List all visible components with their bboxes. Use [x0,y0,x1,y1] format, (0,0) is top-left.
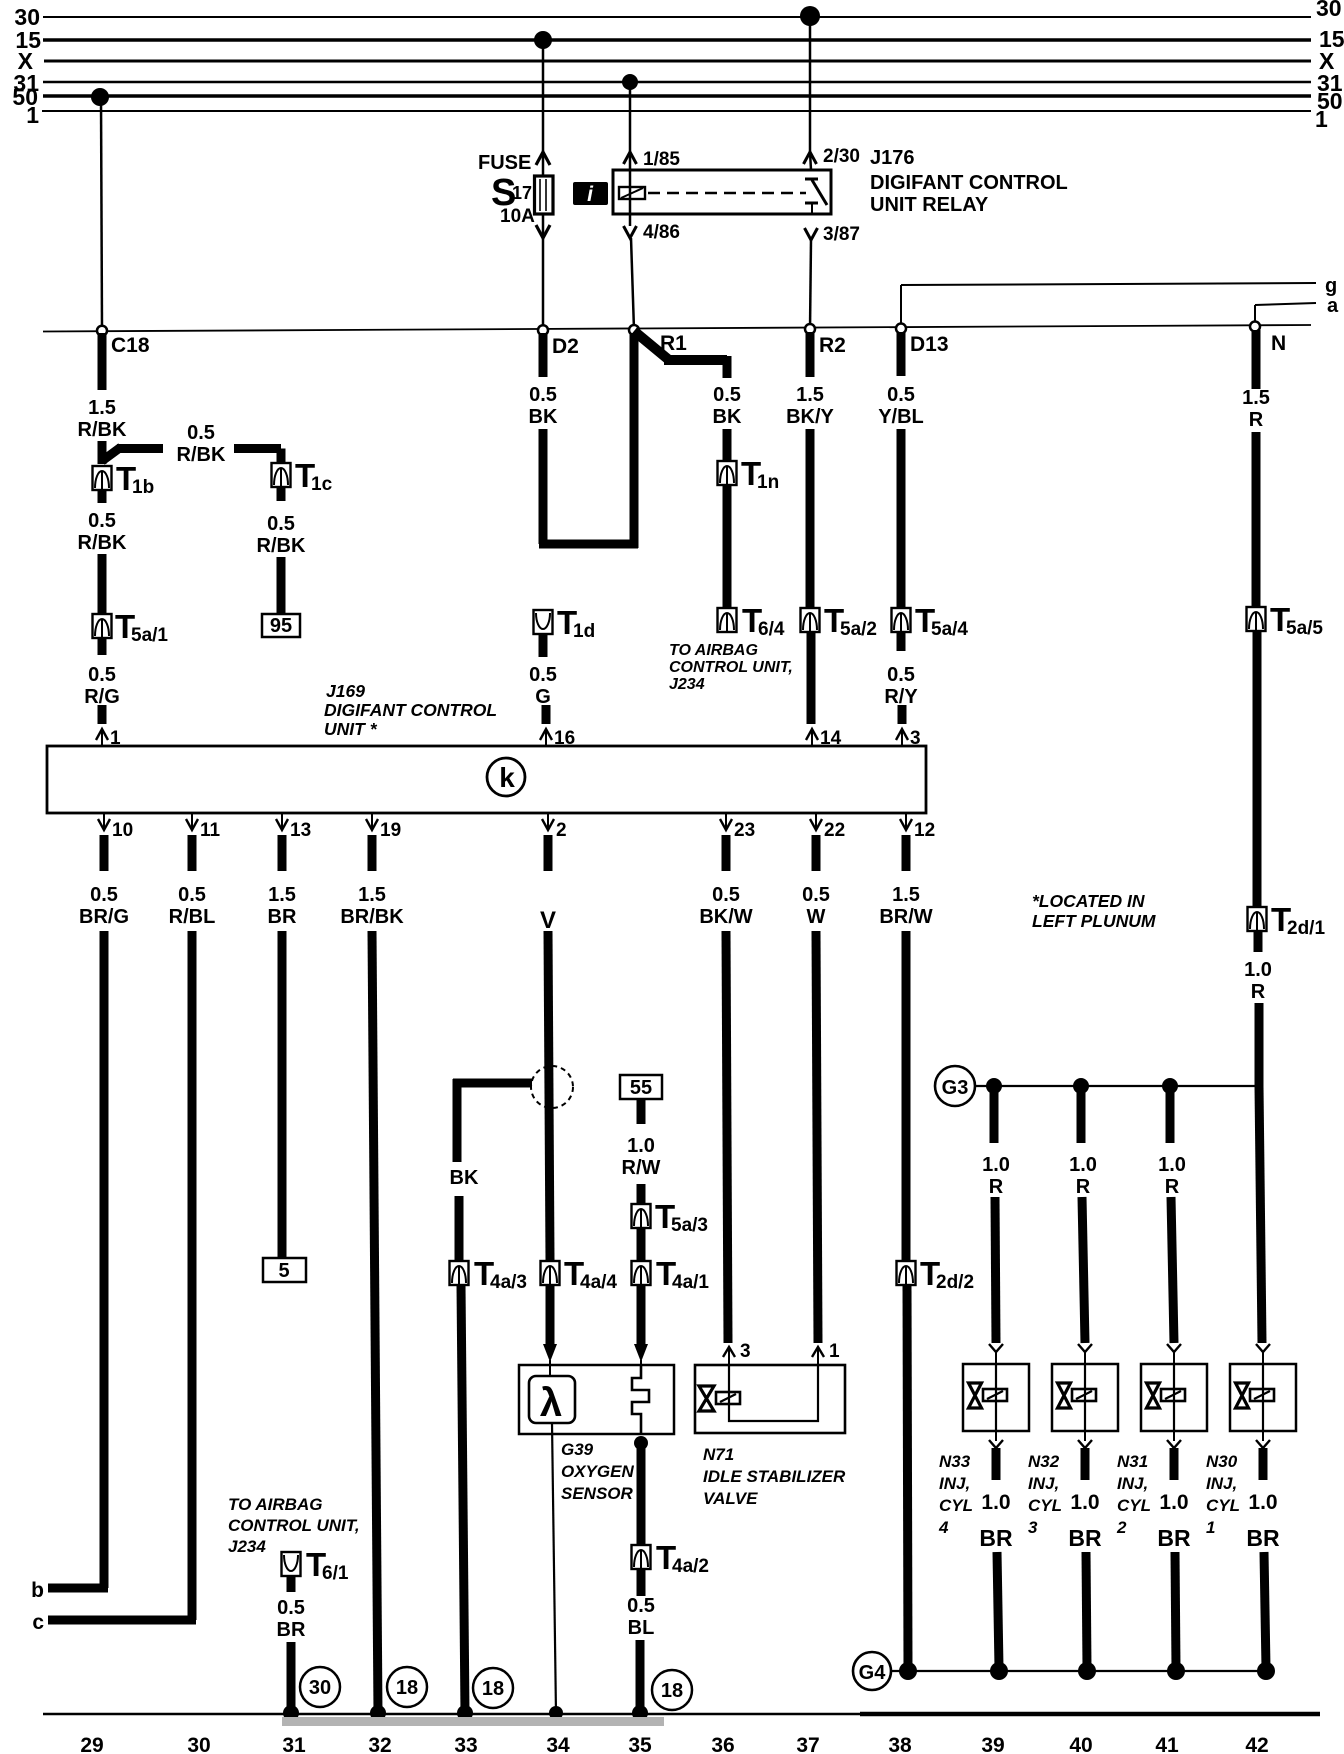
svg-text:BR: BR [979,1525,1013,1551]
svg-text:INJ,: INJ, [1117,1474,1148,1493]
svg-text:2: 2 [1116,1518,1127,1537]
connector T5a/1 [93,608,169,646]
wire to pin 3 [898,705,907,724]
wire C18 down [98,333,107,390]
pin 11 of J169 [186,813,221,841]
wire below T4a/2 [637,1569,646,1596]
wire below T5a/1 [98,638,107,655]
injector N32 internal wire [1084,1364,1086,1431]
svg-text:J234: J234 [669,676,705,693]
svg-text:34: 34 [546,1734,570,1754]
svg-text:4a/1: 4a/1 [672,1272,709,1293]
label 1.0 BR N30 [1246,1491,1280,1551]
label N71 idle stabilizer valve [703,1445,846,1508]
G4 junction dot N31 [1167,1662,1185,1680]
svg-text:g: g [1325,275,1337,297]
svg-text:10: 10 [112,820,133,841]
idle stabilizer valve N71 box [695,1365,845,1433]
svg-text:2d/2: 2d/2 [936,1272,974,1293]
arrow into G39 left [543,1344,557,1377]
arrow into N33 [989,1344,1003,1364]
wire stub pin 2 [544,835,553,871]
svg-text:c: c [32,1611,44,1634]
svg-text:BK: BK [450,1167,479,1189]
relay switch [805,179,827,214]
svg-text:1.0: 1.0 [1069,1154,1097,1176]
junction on bus 50 [91,88,109,106]
injector feed wire N32 [1077,1086,1086,1143]
pin below N33 [989,1431,1003,1448]
svg-text:BK: BK [713,406,742,428]
junction on bus 31 [622,74,638,90]
N71 internal wire [729,1365,818,1421]
lambda probe symbol [529,1376,575,1425]
wire to T1n [723,429,732,461]
bus line 31 [43,81,1311,84]
marker box 1 [573,182,608,206]
ground dot 35 [632,1705,648,1721]
svg-text:1.0: 1.0 [1158,1154,1186,1176]
wire T4a/1 to G39 [637,1285,646,1344]
label G39 oxygen sensor [561,1440,634,1503]
label N30 INJ CYL 1 [1206,1452,1240,1537]
svg-text:BR/W: BR/W [879,906,932,928]
svg-text:k: k [499,762,515,793]
svg-text:SENSOR: SENSOR [561,1484,634,1503]
svg-text:R/BL: R/BL [169,906,216,928]
svg-text:R/BK: R/BK [78,532,127,554]
N71 valve symbol [699,1386,740,1411]
wire below T5a/4 [897,632,906,651]
terminal 95 box [262,614,300,637]
label 1.0 BR N33 [979,1491,1013,1551]
wire to N33 [995,1197,996,1343]
junction below G39 [634,1436,648,1450]
wire to ground 35 [636,1640,645,1714]
svg-text:BK: BK [529,406,558,428]
wire pin22 to N71 [816,931,818,1343]
ground rail shading [282,1717,664,1726]
svg-text:3: 3 [740,1341,751,1362]
wire to T1b [98,441,107,464]
svg-text:CONTROL UNIT,: CONTROL UNIT, [669,659,793,676]
wire D2 down [539,333,548,377]
svg-text:R/BK: R/BK [257,535,306,557]
svg-text:17: 17 [512,183,532,203]
svg-text:J176: J176 [870,147,915,169]
svg-text:12: 12 [914,820,935,841]
svg-text:1.0: 1.0 [1244,959,1272,981]
svg-text:CYL: CYL [1117,1496,1151,1515]
pin below N31 [1167,1431,1181,1448]
svg-text:0.5: 0.5 [267,513,295,535]
wire T5a/3 to T4a/1 [637,1228,646,1261]
track numbers [80,1734,1268,1754]
arrow into G39 right [634,1344,648,1368]
pin 10 of J169 [98,813,133,841]
wire pin13 down [278,931,287,1258]
note to airbag lower [228,1495,360,1556]
svg-text:R: R [1076,1176,1091,1198]
relay J176 box [613,170,831,214]
injector N31 valve symbol [1147,1383,1186,1408]
svg-text:0.5: 0.5 [529,664,557,686]
svg-text:10A: 10A [500,206,535,227]
wire stub pin 10 [100,835,109,871]
svg-text:TO AIRBAG: TO AIRBAG [228,1495,322,1514]
svg-text:0.5: 0.5 [627,1595,655,1617]
svg-text:G39: G39 [561,1440,594,1459]
wire G39 to T4a/2 [637,1443,646,1545]
svg-text:2d/1: 2d/1 [1287,918,1325,939]
pin 3 of N71 [723,1341,751,1365]
connector T2d/1 [1248,901,1326,939]
svg-text:TO AIRBAG: TO AIRBAG [669,642,758,659]
wire T4a/4 to G39 [546,1285,555,1344]
svg-text:BR/BK: BR/BK [340,906,404,928]
G4 junction dot N33 [990,1662,1008,1680]
svg-text:DIGIFANT CONTROL: DIGIFANT CONTROL [870,172,1068,194]
svg-text:N30: N30 [1206,1452,1238,1471]
wire pin12 to T2d/2 [902,931,911,1261]
svg-text:30: 30 [309,1677,331,1699]
connector T4a/4 [541,1255,618,1293]
ground dot 34 [549,1706,563,1720]
svg-text:0.5: 0.5 [187,422,215,444]
svg-text:0.5: 0.5 [713,384,741,406]
svg-text:BR: BR [1157,1525,1191,1551]
pin 3 of J169 [896,728,921,749]
arrow pin 1/85 [624,152,637,164]
svg-text:G: G [535,686,551,708]
label N32 INJ CYL 3 [1028,1452,1062,1537]
wire BK to T4a/3 [455,1196,464,1261]
wire bus30 to pin 2/30 [809,18,812,152]
pin below N32 [1078,1431,1092,1448]
arrow into N32 [1078,1344,1092,1364]
wire D2 U-turn [539,333,638,548]
svg-text:35: 35 [628,1734,652,1754]
wire T2d/2 to G4 [907,1285,908,1668]
wire g [901,283,1316,329]
svg-text:1b: 1b [132,477,154,498]
wire to T5a/2 [806,429,815,608]
svg-text:R: R [1251,981,1266,1003]
pin 13 of J169 [276,813,311,841]
svg-text:5a/2: 5a/2 [840,619,877,640]
svg-text:CYL: CYL [1206,1496,1240,1515]
wire below T1c [277,487,286,501]
bus line X [44,60,1311,63]
label N33 INJ CYL 4 [938,1452,973,1537]
svg-text:BR/G: BR/G [79,906,129,928]
wire stub below N32 [1081,1448,1090,1480]
svg-text:BR: BR [1246,1525,1280,1551]
node D2 [538,325,579,358]
svg-text:R: R [989,1176,1004,1198]
svg-text:40: 40 [1069,1734,1092,1754]
wire pin19 to ground [372,931,378,1714]
pin 23 of J169 [720,813,755,841]
relay pin line 1/85-4/86 [629,152,632,226]
svg-text:λ: λ [540,1381,562,1425]
svg-text:0.5: 0.5 [178,884,206,906]
svg-text:N31: N31 [1117,1452,1148,1471]
wire to T5a/4 [897,429,906,608]
svg-text:42: 42 [1245,1734,1268,1754]
svg-text:1.0: 1.0 [627,1135,655,1157]
wire N down [1252,330,1261,389]
svg-text:41: 41 [1155,1734,1179,1754]
terminal 55 box [620,1075,662,1099]
svg-text:1: 1 [1206,1518,1215,1537]
label 1.0 BR N31 [1157,1491,1191,1551]
arrow up at fuse [536,152,550,165]
svg-text:1d: 1d [573,621,595,642]
pin 22 of J169 [810,813,845,841]
svg-text:5a/5: 5a/5 [1286,618,1323,639]
svg-text:1.5: 1.5 [358,884,386,906]
wire to T5a/5 [1252,432,1261,607]
connector T1c [272,457,333,495]
svg-text:1.0: 1.0 [1070,1491,1099,1514]
component letter k [487,758,525,796]
svg-text:W: W [807,906,826,928]
pin 1 of N71 [812,1341,840,1365]
svg-text:2: 2 [556,820,567,841]
ground symbol 18 at 35 [652,1670,692,1710]
terminal 5 box [263,1258,306,1282]
svg-text:13: 13 [290,820,311,841]
wire to N31 [1171,1197,1174,1343]
svg-text:R/G: R/G [84,686,120,708]
svg-text:BL: BL [628,1617,655,1639]
wire below T1b [98,490,107,503]
injector N32 box [1052,1364,1118,1431]
svg-text:VALVE: VALVE [703,1489,758,1508]
svg-text:5a/3: 5a/3 [671,1215,708,1236]
connector T5a/4 [892,602,969,640]
connector T1d [534,604,596,642]
svg-text:1c: 1c [311,474,333,495]
connector T2d/2 [897,1255,975,1293]
label J169 [324,681,497,739]
injector N32 valve symbol [1058,1383,1097,1408]
injector N30 box [1230,1364,1296,1431]
svg-text:1: 1 [1315,106,1328,132]
svg-text:30: 30 [1316,0,1342,21]
relay label J176 [870,147,1068,216]
svg-text:18: 18 [661,1680,683,1702]
svg-text:BR: BR [277,1619,306,1641]
G3 junction dots [986,1078,1178,1094]
arrow pin 2/30 [804,152,817,164]
svg-text:33: 33 [454,1734,477,1754]
bus line 1 [42,110,1311,112]
ground dot 32 [370,1705,386,1721]
connector T4a/2 [632,1539,709,1577]
svg-text:1: 1 [26,102,39,128]
svg-text:30: 30 [187,1734,210,1754]
wire to T5a/1 [98,554,107,614]
bus line 30 [43,16,1311,18]
G3 bus line [975,1085,1259,1087]
pin 19 of J169 [366,813,401,841]
svg-text:38: 38 [888,1734,912,1754]
svg-text:0.5: 0.5 [277,1597,305,1619]
svg-text:1.5: 1.5 [892,884,920,906]
svg-text:1.5: 1.5 [268,884,296,906]
wire 4/86 to R1 [631,238,634,330]
svg-text:R/Y: R/Y [884,686,918,708]
ground rail [43,1713,1320,1716]
pin 1 of J169 [96,728,121,749]
bus labels left [12,4,41,128]
wire stub pin 13 [278,835,287,871]
wire pin23 to N71 [726,931,728,1343]
node R1 [629,325,687,355]
wire to N32 [1082,1197,1085,1343]
wire to pin 16 [542,705,551,724]
svg-text:CONTROL UNIT,: CONTROL UNIT, [228,1516,360,1535]
wire bus15 to fuse [542,42,545,177]
svg-text:55: 55 [630,1077,652,1099]
oxygen sensor G39 box [519,1365,674,1434]
wire below 55 [637,1099,646,1124]
G4 bus line [891,1670,1266,1672]
svg-text:5: 5 [278,1260,289,1282]
wire to pin 14 [807,632,816,724]
bus line 15 [43,38,1311,42]
connector T6/4 [718,602,785,640]
label N31 INJ CYL 2 [1116,1452,1151,1537]
svg-text:23: 23 [734,820,755,841]
wire fuse to D2 [542,214,545,330]
svg-text:22: 22 [824,820,845,841]
svg-text:G3: G3 [942,1077,969,1099]
wire stub pin 23 [722,835,731,871]
wire bus50 to C18 [101,99,102,329]
connector T5a/3 [632,1198,708,1236]
svg-text:R/BK: R/BK [177,444,226,466]
svg-text:N32: N32 [1028,1452,1060,1471]
svg-text:0.5: 0.5 [88,664,116,686]
wire N33 to G4 [997,1552,999,1668]
wire BK elbow [453,1079,532,1162]
node C18 [97,326,150,357]
injector N31 box [1141,1364,1207,1431]
bus line 50 [43,94,1311,98]
svg-text:0.5: 0.5 [887,664,915,686]
svg-text:0.5: 0.5 [712,884,740,906]
svg-text:18: 18 [396,1677,418,1699]
note located in left plenum [1032,891,1156,931]
svg-text:FUSE: FUSE [478,152,531,174]
svg-text:C18: C18 [111,334,150,357]
svg-text:5a/4: 5a/4 [931,619,968,640]
svg-text:N71: N71 [703,1445,734,1464]
wire to G3 junction [1255,1003,1264,1086]
wire T1n to T6/4 [723,485,732,608]
svg-text:1.5: 1.5 [1242,387,1270,409]
wire stub pin 12 [902,835,911,871]
wire stub pin 11 [188,835,197,871]
svg-text:b: b [31,1579,44,1602]
relay coil [619,187,645,199]
svg-text:6/1: 6/1 [322,1563,349,1584]
separator line [43,325,1311,332]
fuse label S17 [491,172,532,214]
svg-text:1/85: 1/85 [643,149,680,170]
svg-text:0.5: 0.5 [90,884,118,906]
injector feed wire N33 [990,1086,999,1143]
connector T1b [93,460,155,498]
wire R1 elbow [634,331,727,378]
svg-text:*LOCATED IN: *LOCATED IN [1032,891,1145,911]
pin 2 of J169 [542,813,567,841]
node G4 circle [853,1652,891,1690]
ground symbol 18 at 33 [473,1668,513,1708]
svg-text:1: 1 [829,1341,840,1362]
bus labels right [1315,0,1344,132]
svg-text:3: 3 [1028,1518,1038,1537]
junction on bus 30 [800,6,820,26]
wire bus31 to pin 1/85 [629,84,632,152]
svg-text:29: 29 [80,1734,103,1754]
ground symbol 30 at 31 [300,1667,340,1707]
svg-text:D2: D2 [552,335,579,358]
wire stub below N30 [1259,1448,1268,1480]
injector N30 valve symbol [1236,1383,1275,1408]
relay dashed link [648,192,806,195]
svg-text:UNIT RELAY: UNIT RELAY [870,194,989,216]
pin 12 of J169 [900,813,935,841]
svg-text:39: 39 [981,1734,1004,1754]
wire to pin 1 [98,705,107,724]
svg-text:0.5: 0.5 [887,384,915,406]
injector N33 valve symbol [969,1383,1008,1408]
injector feed wire N31 [1166,1086,1175,1143]
ground dot 31 [283,1705,299,1721]
svg-text:DIGIFANT CONTROL: DIGIFANT CONTROL [324,700,497,720]
svg-text:R/BK: R/BK [78,419,127,441]
svg-text:3/87: 3/87 [823,224,860,245]
svg-text:J234: J234 [228,1537,266,1556]
injector N31 internal wire [1173,1364,1175,1431]
node D13 [896,324,949,357]
svg-text:5a/1: 5a/1 [131,625,168,646]
branch wire right [234,449,281,464]
arrow pin 4/86 [624,226,637,238]
wire a [1255,303,1316,327]
svg-text:4: 4 [938,1518,949,1537]
svg-text:D13: D13 [910,333,949,356]
connector T1n [718,455,780,493]
wire R2 down [806,332,815,377]
svg-text:a: a [1327,295,1339,317]
svg-text:BK/W: BK/W [699,906,752,928]
wire stub pin 19 [368,835,377,871]
branch diagonal to T1c [102,447,163,461]
svg-text:36: 36 [711,1734,734,1754]
junction on bus 15 [534,31,552,49]
label 1.0 BR N32 [1068,1491,1102,1551]
svg-text:1.0: 1.0 [982,1154,1010,1176]
pin 14 of J169 [806,728,842,749]
svg-text:R: R [1249,409,1264,431]
heater element zigzag [632,1365,649,1434]
connector T5a/2 [801,602,877,640]
